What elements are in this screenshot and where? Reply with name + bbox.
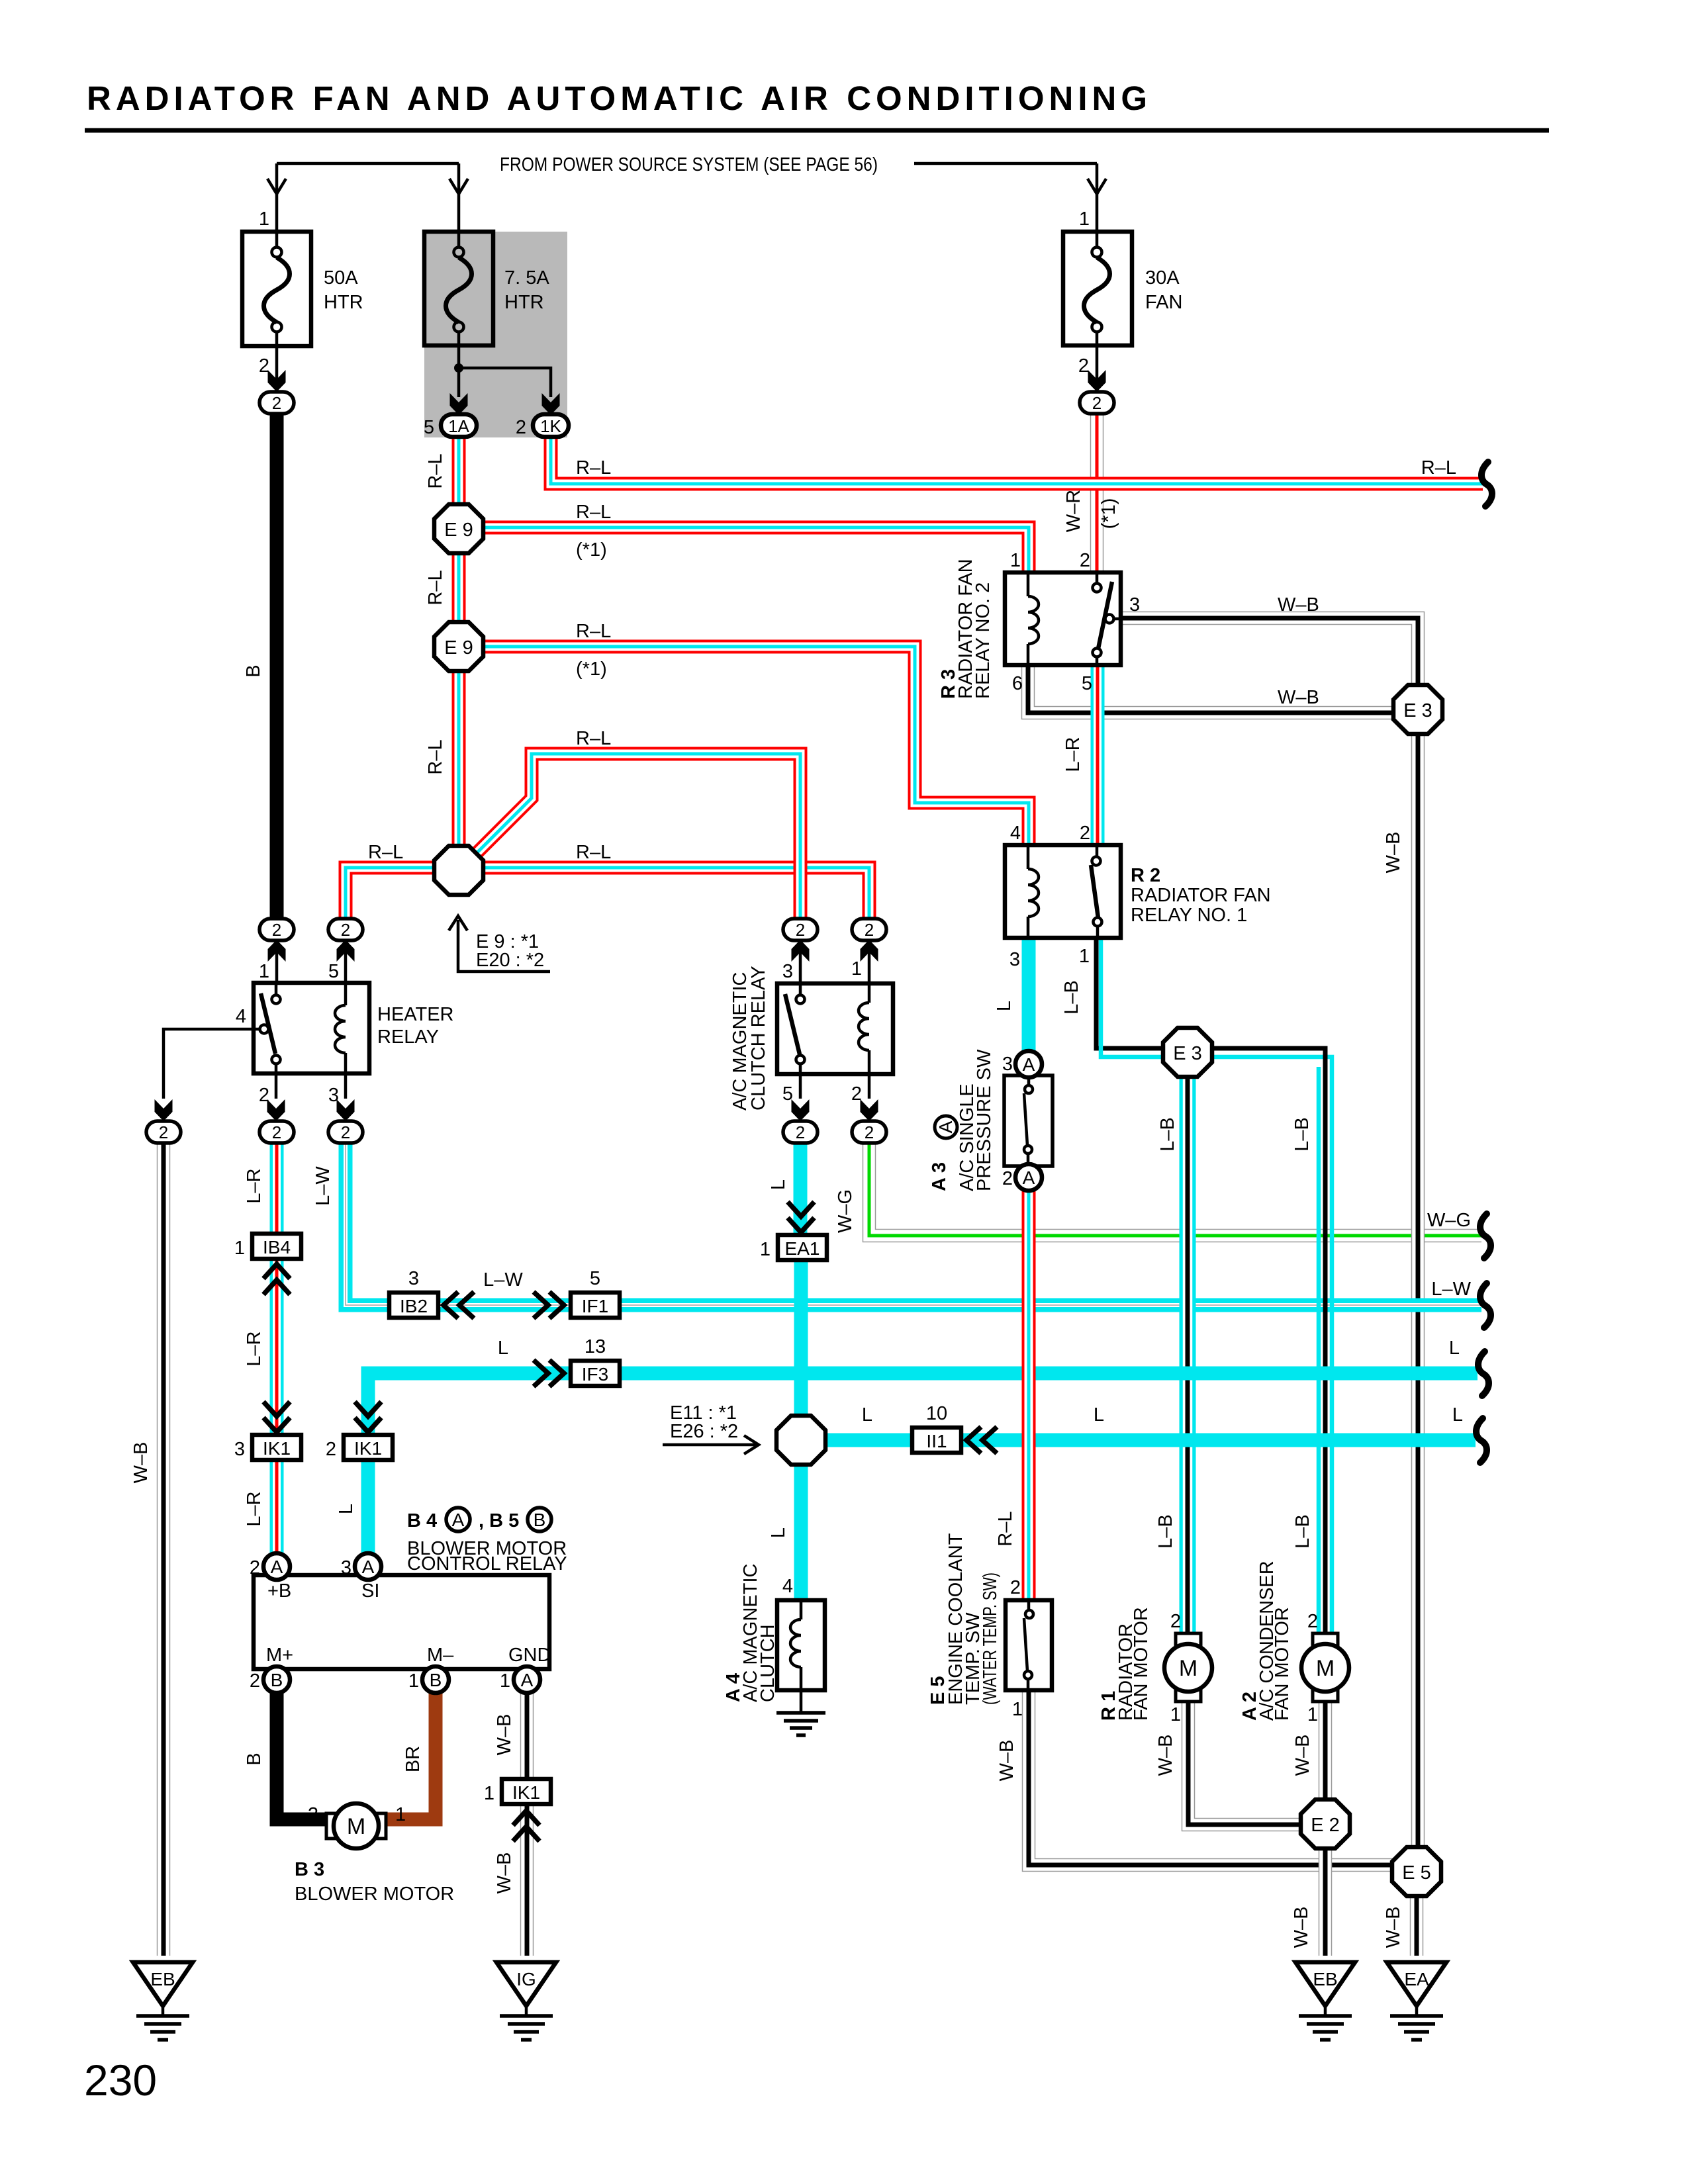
wire W-B from blower relay GND pin through IK1 to ground IG [520,1692,534,1956]
svg-text:IF3: IF3 [582,1364,608,1385]
svg-text:E 3: E 3 [1173,1043,1202,1064]
pin A circle at +B [250,1553,290,1580]
ground EB right [1295,1962,1355,2040]
svg-text:R–L: R–L [995,1511,1016,1546]
svg-text:PRESSURE SW: PRESSURE SW [974,1049,995,1191]
svg-text:1: 1 [1079,946,1090,967]
svg-text:R–L: R–L [576,457,611,478]
node junction octagon (E9/E20) [434,846,483,895]
svg-text:W–B: W–B [996,1740,1017,1782]
wire heater relay pin 4 to oval [164,1029,254,1099]
svg-text:2: 2 [1010,1577,1021,1598]
node junction octagon (E11/E26) [776,1416,825,1465]
wire W-B from E5 water temp switch pin 1 down then right to E5 octagon [1029,1690,1397,1865]
wire L-B from E3 octagon down to radiator fan motor pin 2 [1180,1073,1196,1632]
wire heater pin2 stub [275,1073,278,1099]
svg-text:3: 3 [234,1439,245,1460]
svg-text:E 5: E 5 [1402,1862,1431,1884]
svg-text:10: 10 [926,1403,947,1424]
svg-text:1: 1 [259,961,269,982]
pin B circle at M- [408,1666,449,1693]
node E3 lower [1163,1028,1212,1077]
connector IK1 no.3 [234,1435,301,1460]
svg-text:1: 1 [1170,1704,1181,1725]
connector IF3 [571,1336,620,1386]
relay A/C MAGNETIC CLUTCH RELAY [729,958,893,1111]
wire L-W from IF1 right to page edge [618,1298,1481,1312]
connector oval 2 at heater pin 5 [328,919,363,940]
svg-text:3: 3 [782,961,793,982]
svg-text:IK1: IK1 [512,1782,540,1803]
svg-text:E 3: E 3 [1403,700,1432,721]
wire drop to 30A fuse [1096,163,1099,232]
svg-text:2: 2 [1080,550,1090,571]
svg-text:II1: II1 [926,1431,947,1451]
open arrow on 50A drop [267,179,286,194]
wire W-G from A/C magnetic clutch relay pin 2 oval down then right to page edge [869,1142,1481,1236]
svg-text:2: 2 [865,920,874,940]
svg-text:RELAY NO. 2: RELAY NO. 2 [972,582,994,699]
svg-text:1: 1 [395,1804,406,1825]
svg-text:, B 5: , B 5 [479,1510,519,1531]
motor B3 BLOWER MOTOR [295,1803,454,1905]
svg-text:L–B: L–B [1157,1117,1178,1152]
svg-text:EB: EB [1313,1969,1337,1989]
arrow into 1A [450,393,468,415]
svg-text:M: M [347,1814,365,1839]
svg-text:W–G: W–G [1427,1210,1471,1231]
svg-text:3: 3 [1129,594,1140,615]
svg-text:2: 2 [1080,823,1090,844]
wire W-B from E2 octagon down to ground EB right [1319,1845,1333,1956]
svg-text:B: B [534,1510,546,1530]
fuse 30A FAN [1063,208,1182,394]
connector oval 2 at A/C relay pin 5 [783,1121,818,1143]
break on W-G line [1480,1214,1491,1258]
wire power feed right horizontal [914,162,1097,165]
svg-text:L–W: L–W [483,1269,523,1291]
svg-text:1: 1 [234,1238,245,1259]
svg-text:L: L [768,1527,789,1538]
break on L line lower [1476,1418,1487,1463]
svg-text:L: L [1449,1338,1460,1359]
svg-text:L: L [1452,1404,1463,1426]
wire W-B from A/C condenser fan motor pin 1 down to E2 octagon [1319,1701,1333,1803]
svg-text:W–B: W–B [1383,832,1404,874]
relay BLOWER MOTOR CONTROL RELAY [254,1508,567,1669]
svg-text:E 2: E 2 [1311,1815,1340,1836]
svg-text:2: 2 [1170,1611,1181,1632]
svg-text:4: 4 [236,1006,246,1027]
svg-text:CONTROL RELAY: CONTROL RELAY [407,1553,567,1574]
connector oval 1A [424,414,477,438]
svg-text:B: B [271,1670,283,1690]
svg-text:HTR: HTR [504,292,544,313]
svg-text:1: 1 [1012,1699,1023,1720]
svg-text:L: L [498,1338,508,1359]
wire L from R2 pin 3 down to A/C single pressure SW pin 3 [1022,938,1036,1054]
svg-text:R–L: R–L [576,842,611,863]
wire R-L from junction octagon left to heater relay pin 5 oval [346,868,437,919]
connector IB2 [389,1268,438,1318]
wire R-L from lower E9 down to junction octagon [452,670,466,847]
svg-text:2: 2 [272,920,281,940]
chevron below IK1 no.1 pointing up [513,1811,539,1841]
relay HEATER RELAY [236,961,454,1106]
wire W-B from R3 pin 3 right, down through E3 octagon to E5 octagon [1121,618,1418,1850]
svg-text:R–L: R–L [576,621,611,642]
chevron left of IF1 pointing right [534,1292,564,1318]
svg-text:2: 2 [796,920,805,940]
svg-text:30A: 30A [1145,267,1180,289]
svg-text:L: L [768,1179,789,1190]
svg-text:4: 4 [1010,823,1021,844]
svg-text:W–B: W–B [130,1442,152,1484]
svg-text:R–L: R–L [1421,457,1456,478]
open arrow on 7.5A drop [449,179,468,194]
svg-text:BR: BR [402,1746,424,1772]
svg-text:2: 2 [250,1557,260,1578]
svg-text:W–B: W–B [1291,1907,1312,1948]
wire L-R from R3 pin 5 down to R2 pin 2 [1091,665,1105,843]
svg-text:R–L: R–L [425,739,446,774]
connector oval 2 at heater pin 4 wire [146,1121,181,1143]
svg-text:HEATER: HEATER [377,1004,453,1025]
svg-text:2: 2 [341,920,350,940]
connector EA1 [760,1235,827,1260]
svg-text:W–B: W–B [1383,1907,1404,1948]
connector IK1 no.1 [484,1779,551,1804]
ground EA [1387,1962,1446,2040]
svg-text:L–R: L–R [244,1331,265,1366]
wire R-L from A/C single pressure SW pin 2 down to E5 water temp SW pin 2 [1022,1189,1036,1600]
svg-text:FROM POWER SOURCE SYSTEM (SEE: FROM POWER SOURCE SYSTEM (SEE PAGE 56) [500,154,878,175]
svg-text:IG: IG [516,1969,536,1989]
svg-text:4: 4 [782,1576,793,1597]
svg-text:E26 : *2: E26 : *2 [670,1421,738,1442]
node E9 upper [434,504,483,553]
wire 7.5A fuse output junction [459,345,551,397]
svg-text:3: 3 [341,1557,352,1578]
svg-text:L–R: L–R [244,1168,265,1203]
svg-text:1: 1 [484,1783,494,1804]
wire L from E11/E26 octagon right through II1 to page edge [821,1433,1476,1447]
svg-text:L–R: L–R [244,1491,265,1526]
wire W-B from heater relay pin 4 oval down to ground EB left [157,1142,171,1956]
svg-text:1: 1 [1010,550,1021,571]
svg-text:EA1: EA1 [785,1238,820,1259]
svg-text:L: L [336,1504,357,1514]
svg-text:E20 : *2: E20 : *2 [476,950,544,971]
svg-text:3: 3 [1002,1054,1013,1075]
svg-text:7. 5A: 7. 5A [504,267,549,289]
svg-text:CLUTCH: CLUTCH [757,1624,778,1702]
svg-text:R–L: R–L [425,570,446,605]
svg-text:1: 1 [500,1670,510,1692]
svg-text:HTR: HTR [324,292,363,313]
connector IK1 no.2 [326,1435,393,1460]
svg-text:5: 5 [1082,673,1092,694]
wires A/C clutch relay pin stubs and arrows [799,942,802,983]
junction dot [454,363,463,373]
svg-text:L–B: L–B [1061,980,1082,1015]
svg-text:FAN: FAN [1145,292,1182,313]
pin A circle at GND [500,1666,540,1693]
svg-text:B: B [244,1752,265,1765]
svg-text:2: 2 [1078,355,1089,377]
svg-text:M–: M– [427,1645,454,1666]
chevron above IK1 no.3 pointing down [263,1402,290,1432]
wire drop to 50A fuse [275,163,279,232]
svg-text:5: 5 [424,417,434,438]
pin A circle at SI [341,1553,381,1580]
svg-text:L–R: L–R [1062,737,1084,772]
svg-text:1: 1 [760,1239,771,1260]
switch E5 ENGINE COOLANT TEMP SW [927,1533,1052,1720]
svg-text:W–B: W–B [1292,1735,1313,1776]
svg-text:B 4: B 4 [407,1510,437,1531]
svg-text:2: 2 [272,1122,281,1142]
wire W-B from radiator fan motor pin 1 down then right to E2 octagon [1188,1701,1305,1825]
wire R-L from junction octagon right to A/C clutch relay pin 1 oval [482,868,869,919]
connector oval 2 at heater pin 2 [259,1121,294,1143]
fuse 50A HTR [242,208,363,394]
svg-text:RELAY: RELAY [377,1026,439,1048]
svg-text:A: A [1023,1054,1035,1075]
svg-text:2: 2 [308,1804,318,1825]
svg-text:W–B: W–B [1278,687,1319,708]
svg-text:L: L [862,1404,872,1426]
wire L-W from heater relay pin3 oval down then right to IB2 [346,1141,392,1305]
wire L-W from IB2 to IF1 [436,1298,573,1312]
chevron left of IF3 pointing right [534,1360,564,1387]
svg-text:A: A [521,1670,534,1690]
connector oval 2 below 50A fuse [259,392,294,414]
svg-text:EA: EA [1404,1969,1429,1989]
svg-text:W–B: W–B [1278,594,1319,615]
connector oval 2 at A/C relay pin 3 [783,919,818,940]
svg-text:W–B: W–B [1155,1735,1176,1776]
svg-text:230: 230 [84,2056,157,2105]
svg-text:3: 3 [1009,949,1020,970]
break on L line upper [1478,1351,1489,1396]
svg-text:2: 2 [1092,393,1102,413]
svg-text:GND: GND [508,1645,551,1666]
svg-text:RADIATOR FAN AND AUTOMATIC AIR: RADIATOR FAN AND AUTOMATIC AIR CONDITION… [87,79,1152,117]
svg-text:+B: +B [267,1580,291,1602]
connector II1 [912,1403,961,1453]
wire L-B from E3 octagon right then down to A/C condenser fan motor pin 2 [1209,1057,1332,1632]
svg-text:L–B: L–B [1291,1117,1313,1152]
connector oval 2 below 30A fuse [1080,392,1114,414]
svg-text:IB4: IB4 [263,1237,291,1257]
wire R-L diagonal from junction octagon up then right to A/C clutch relay pin 3 oval [474,754,800,919]
open arrow on 30A drop [1088,179,1106,194]
title rule [85,128,1549,133]
svg-text:M: M [1179,1656,1197,1681]
svg-text:1K: 1K [540,416,561,436]
svg-text:L: L [994,1001,1015,1011]
relay R3 RADIATOR FAN RELAY NO.2 [938,550,1140,699]
connector IB4 [234,1234,301,1259]
connector IF1 [571,1268,620,1318]
ground IG [496,1962,556,2040]
fuse 7.5A HTR [424,232,549,345]
svg-text:R 2: R 2 [1131,865,1160,886]
svg-text:M+: M+ [266,1645,293,1666]
svg-text:2: 2 [516,417,526,438]
svg-text:IK1: IK1 [263,1438,291,1459]
motor A2 A/C CONDENSER FAN MOTOR [1239,1561,1349,1725]
node E9 lower [434,622,483,671]
svg-text:W–B: W–B [494,1852,515,1894]
ground EB left [133,1962,193,2040]
svg-text:B: B [243,664,264,677]
svg-text:1: 1 [1307,1704,1318,1725]
component A4 A/C MAGNETIC CLUTCH [723,1564,825,1735]
svg-text:B: B [430,1670,442,1690]
svg-text:RADIATOR FAN: RADIATOR FAN [1131,885,1271,906]
node E5 octagon [1392,1847,1441,1896]
svg-text:3: 3 [408,1268,419,1289]
break on L-W line [1480,1283,1491,1328]
wire W-B from E5 octagon down to ground EA [1410,1893,1424,1956]
svg-text:IK1: IK1 [354,1438,382,1459]
svg-text:R–L: R–L [425,453,446,488]
svg-text:EB: EB [150,1969,175,1989]
svg-text:A: A [935,1120,956,1133]
svg-text:2: 2 [159,1122,168,1142]
wire R-L from E9 upper right then down to R3 pin 1 [482,527,1029,574]
svg-text:L–B: L–B [1292,1514,1313,1549]
svg-text:2: 2 [341,1122,350,1142]
svg-text:R–L: R–L [576,502,611,523]
shaded panel behind 7.5A fuse [424,232,567,437]
wire L from EA1 down through E11/E26 octagon to A4 A/C magnetic clutch [794,1259,808,1600]
wire L from A/C magnetic clutch relay pin5 oval down to EA1 [794,1141,808,1236]
svg-text:IF1: IF1 [582,1296,608,1316]
svg-text:6: 6 [1012,673,1023,694]
chevron right of IB2 pointing left [444,1292,474,1318]
svg-text:A: A [1023,1167,1035,1188]
svg-text:M: M [1316,1656,1335,1681]
svg-text:L–W: L–W [1431,1279,1471,1300]
svg-text:R–L: R–L [368,842,403,863]
wire heater pin3 stub [344,1073,348,1099]
svg-text:A: A [362,1557,375,1577]
connector oval 2 at heater pin 3 [328,1121,363,1143]
wire drop to 7.5A fuse [457,163,461,232]
relay R2 RADIATOR FAN RELAY NO.1 [1005,823,1271,970]
svg-text:RELAY NO. 1: RELAY NO. 1 [1131,905,1247,926]
svg-text:5: 5 [590,1268,600,1289]
motor R1 RADIATOR FAN MOTOR [1098,1607,1212,1725]
svg-text:E 9: E 9 [444,520,473,541]
chevron above EA1 pointing down [788,1202,814,1232]
wire W-R from 30A fuse oval 2 down to R3 pin 2 [1090,413,1104,572]
connector oval 2 at A/C relay pin 1 [852,919,886,940]
svg-text:E 9: E 9 [444,637,473,659]
svg-text:IB2: IB2 [400,1296,428,1316]
svg-text:FAN MOTOR: FAN MOTOR [1131,1607,1152,1721]
svg-text:5: 5 [328,961,339,982]
wire R-L between E9 octagons [452,552,466,623]
note E11/E26 with arrow to junction octagon [663,1402,759,1454]
svg-text:(*1): (*1) [576,659,607,680]
node E3 upper [1393,685,1442,734]
svg-text:1: 1 [259,208,269,230]
svg-text:2: 2 [865,1122,874,1142]
svg-text:L: L [1094,1404,1104,1426]
wire heater pin1 stub [275,942,279,983]
wire power feed left horizontal [277,162,459,165]
wire B thick black from 50A fuse oval to heater relay pin1 oval [270,412,284,919]
svg-text:A: A [452,1510,465,1530]
switch A3 A/C SINGLE PRESSURE SW [929,1049,1053,1191]
wire W-B from R3 pin 6 to E3 octagon [1028,665,1397,713]
wire L from IK1 (2) down to blower relay SI [361,1459,375,1555]
svg-text:B 3: B 3 [295,1859,324,1880]
svg-text:W–B: W–B [494,1714,515,1756]
svg-text:R–L: R–L [576,728,611,749]
connector oval 2 at B wire / heater pin 1 [259,919,294,940]
svg-text:2: 2 [250,1670,260,1692]
arrow into 1K [542,393,560,415]
svg-text:2: 2 [796,1122,805,1142]
svg-text:1: 1 [408,1670,419,1692]
pin B circle at M+ [250,1666,290,1693]
svg-text:13: 13 [585,1336,606,1357]
svg-text:FAN MOTOR: FAN MOTOR [1272,1607,1293,1721]
chevron right of II1 pointing left [966,1427,997,1453]
chevron above IK1 no.2 pointing down [355,1402,381,1432]
wire R-L from E9 lower right, stepping down to R2 pin 4 [482,647,1029,847]
svg-text:50A: 50A [324,267,358,289]
svg-text:2: 2 [326,1439,336,1460]
svg-text:W–G: W–G [835,1189,856,1233]
svg-text:(*1): (*1) [576,539,607,561]
svg-text:L–B: L–B [1155,1514,1176,1549]
svg-text:BLOWER MOTOR: BLOWER MOTOR [295,1884,454,1905]
svg-text:2: 2 [272,393,281,413]
wire L from IF3 right to page edge [618,1367,1477,1381]
wire B from blower relay M+ to blower motor [277,1691,329,1819]
svg-text:CLUTCH RELAY: CLUTCH RELAY [748,966,769,1111]
svg-text:L–W: L–W [312,1166,334,1206]
chevron below IB4 pointing up [263,1264,290,1295]
svg-text:W–R: W–R [1063,490,1084,532]
connector oval 2 at A/C relay pin 2 [852,1121,886,1143]
svg-text:A 3: A 3 [929,1162,950,1191]
wire R-L from 1K oval down then right across page [551,435,1483,484]
wire heater pin5 stub [344,942,348,983]
break on R-L line [1481,462,1492,506]
note E9/E20 with arrow to junction octagon [449,916,550,972]
svg-text:2: 2 [1307,1611,1318,1632]
svg-text:1: 1 [1079,208,1090,230]
wire BR from blower relay M- to blower motor [384,1691,436,1819]
svg-text:2: 2 [1002,1168,1013,1189]
svg-text:A: A [271,1557,283,1577]
svg-text:(WATER TEMP. SW): (WATER TEMP. SW) [980,1572,1001,1705]
wire L horizontal from IF3 left corner down to IK1 (2) [368,1373,573,1436]
connector oval 1K [516,414,569,438]
wire R-L from 1A oval down to E9 [452,435,466,506]
node E2 [1301,1799,1350,1848]
svg-text:(*1): (*1) [1098,498,1119,529]
wire L-R from heater relay pin2 oval down through IB4 and IK1 to blower relay +B [270,1141,284,1555]
svg-text:1A: 1A [448,416,469,436]
